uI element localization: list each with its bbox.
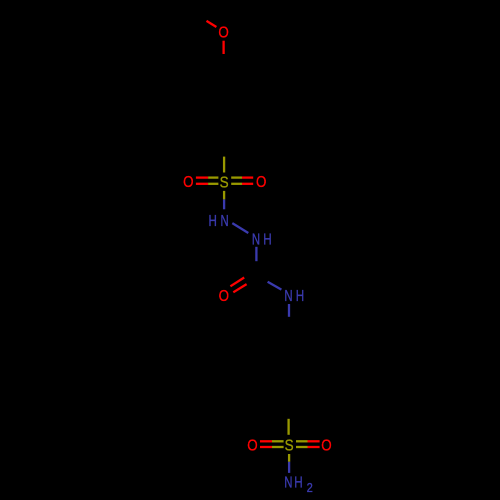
double bond S1=O right, O half (red): [242, 176, 253, 178]
bond N2-C3 (N half, blue): [255, 247, 257, 261]
svg-text:H: H: [209, 213, 217, 230]
svg-text:O: O: [183, 174, 193, 191]
bond N3-C(ring2) (N half, blue): [288, 304, 290, 317]
svg-text:O: O: [247, 438, 257, 455]
svg-text:S: S: [220, 175, 229, 192]
svg-text:N: N: [252, 232, 260, 249]
double bond S2=O left, O half (red): [260, 440, 272, 442]
double bond S2=O left, S half (olive): [272, 440, 284, 442]
svg-text:O: O: [218, 25, 228, 42]
bond C(ring1)-S1 (S half, olive): [223, 157, 225, 173]
svg-text:S: S: [285, 438, 294, 455]
svg-text:O: O: [256, 174, 266, 191]
svg-text:N: N: [221, 213, 229, 230]
bond C(ring2)-S2 (S half, olive): [287, 419, 289, 435]
svg-text:O: O: [321, 438, 331, 455]
svg-text:N: N: [284, 474, 292, 491]
double bond S1=O right, S half (olive): [231, 176, 242, 178]
bond O-C(ring1) (O half, red): [222, 41, 224, 54]
bond CH3-O (methoxy, O half, red): [207, 21, 217, 27]
bond S1-N1, S half (olive): [223, 191, 225, 200]
bond N1-N2 (blue): [232, 223, 248, 233]
double bond S2=O right, O half (red): [308, 440, 320, 442]
bond S2-N4, S half (olive): [288, 454, 290, 462]
svg-text:H: H: [294, 474, 302, 491]
double bond S2=O right, S half (olive): [296, 440, 308, 442]
svg-text:H: H: [263, 232, 271, 249]
svg-text:2: 2: [307, 480, 313, 495]
svg-text:O: O: [219, 288, 229, 305]
double bond C3=O, O half (red), lower line: [233, 284, 246, 292]
double bond S1=O left, S half (olive): [208, 176, 218, 178]
bond S2-N4, N half (blue): [288, 462, 290, 473]
svg-text:H: H: [296, 288, 304, 305]
double bond S1=O left, O half (red): [196, 176, 208, 178]
bond C3-N3 (N half, blue): [268, 282, 282, 290]
svg-text:N: N: [284, 288, 292, 305]
bond S1-N1, N half (blue): [223, 199, 225, 209]
double bond C3=O, O half (red), upper line: [230, 278, 244, 287]
